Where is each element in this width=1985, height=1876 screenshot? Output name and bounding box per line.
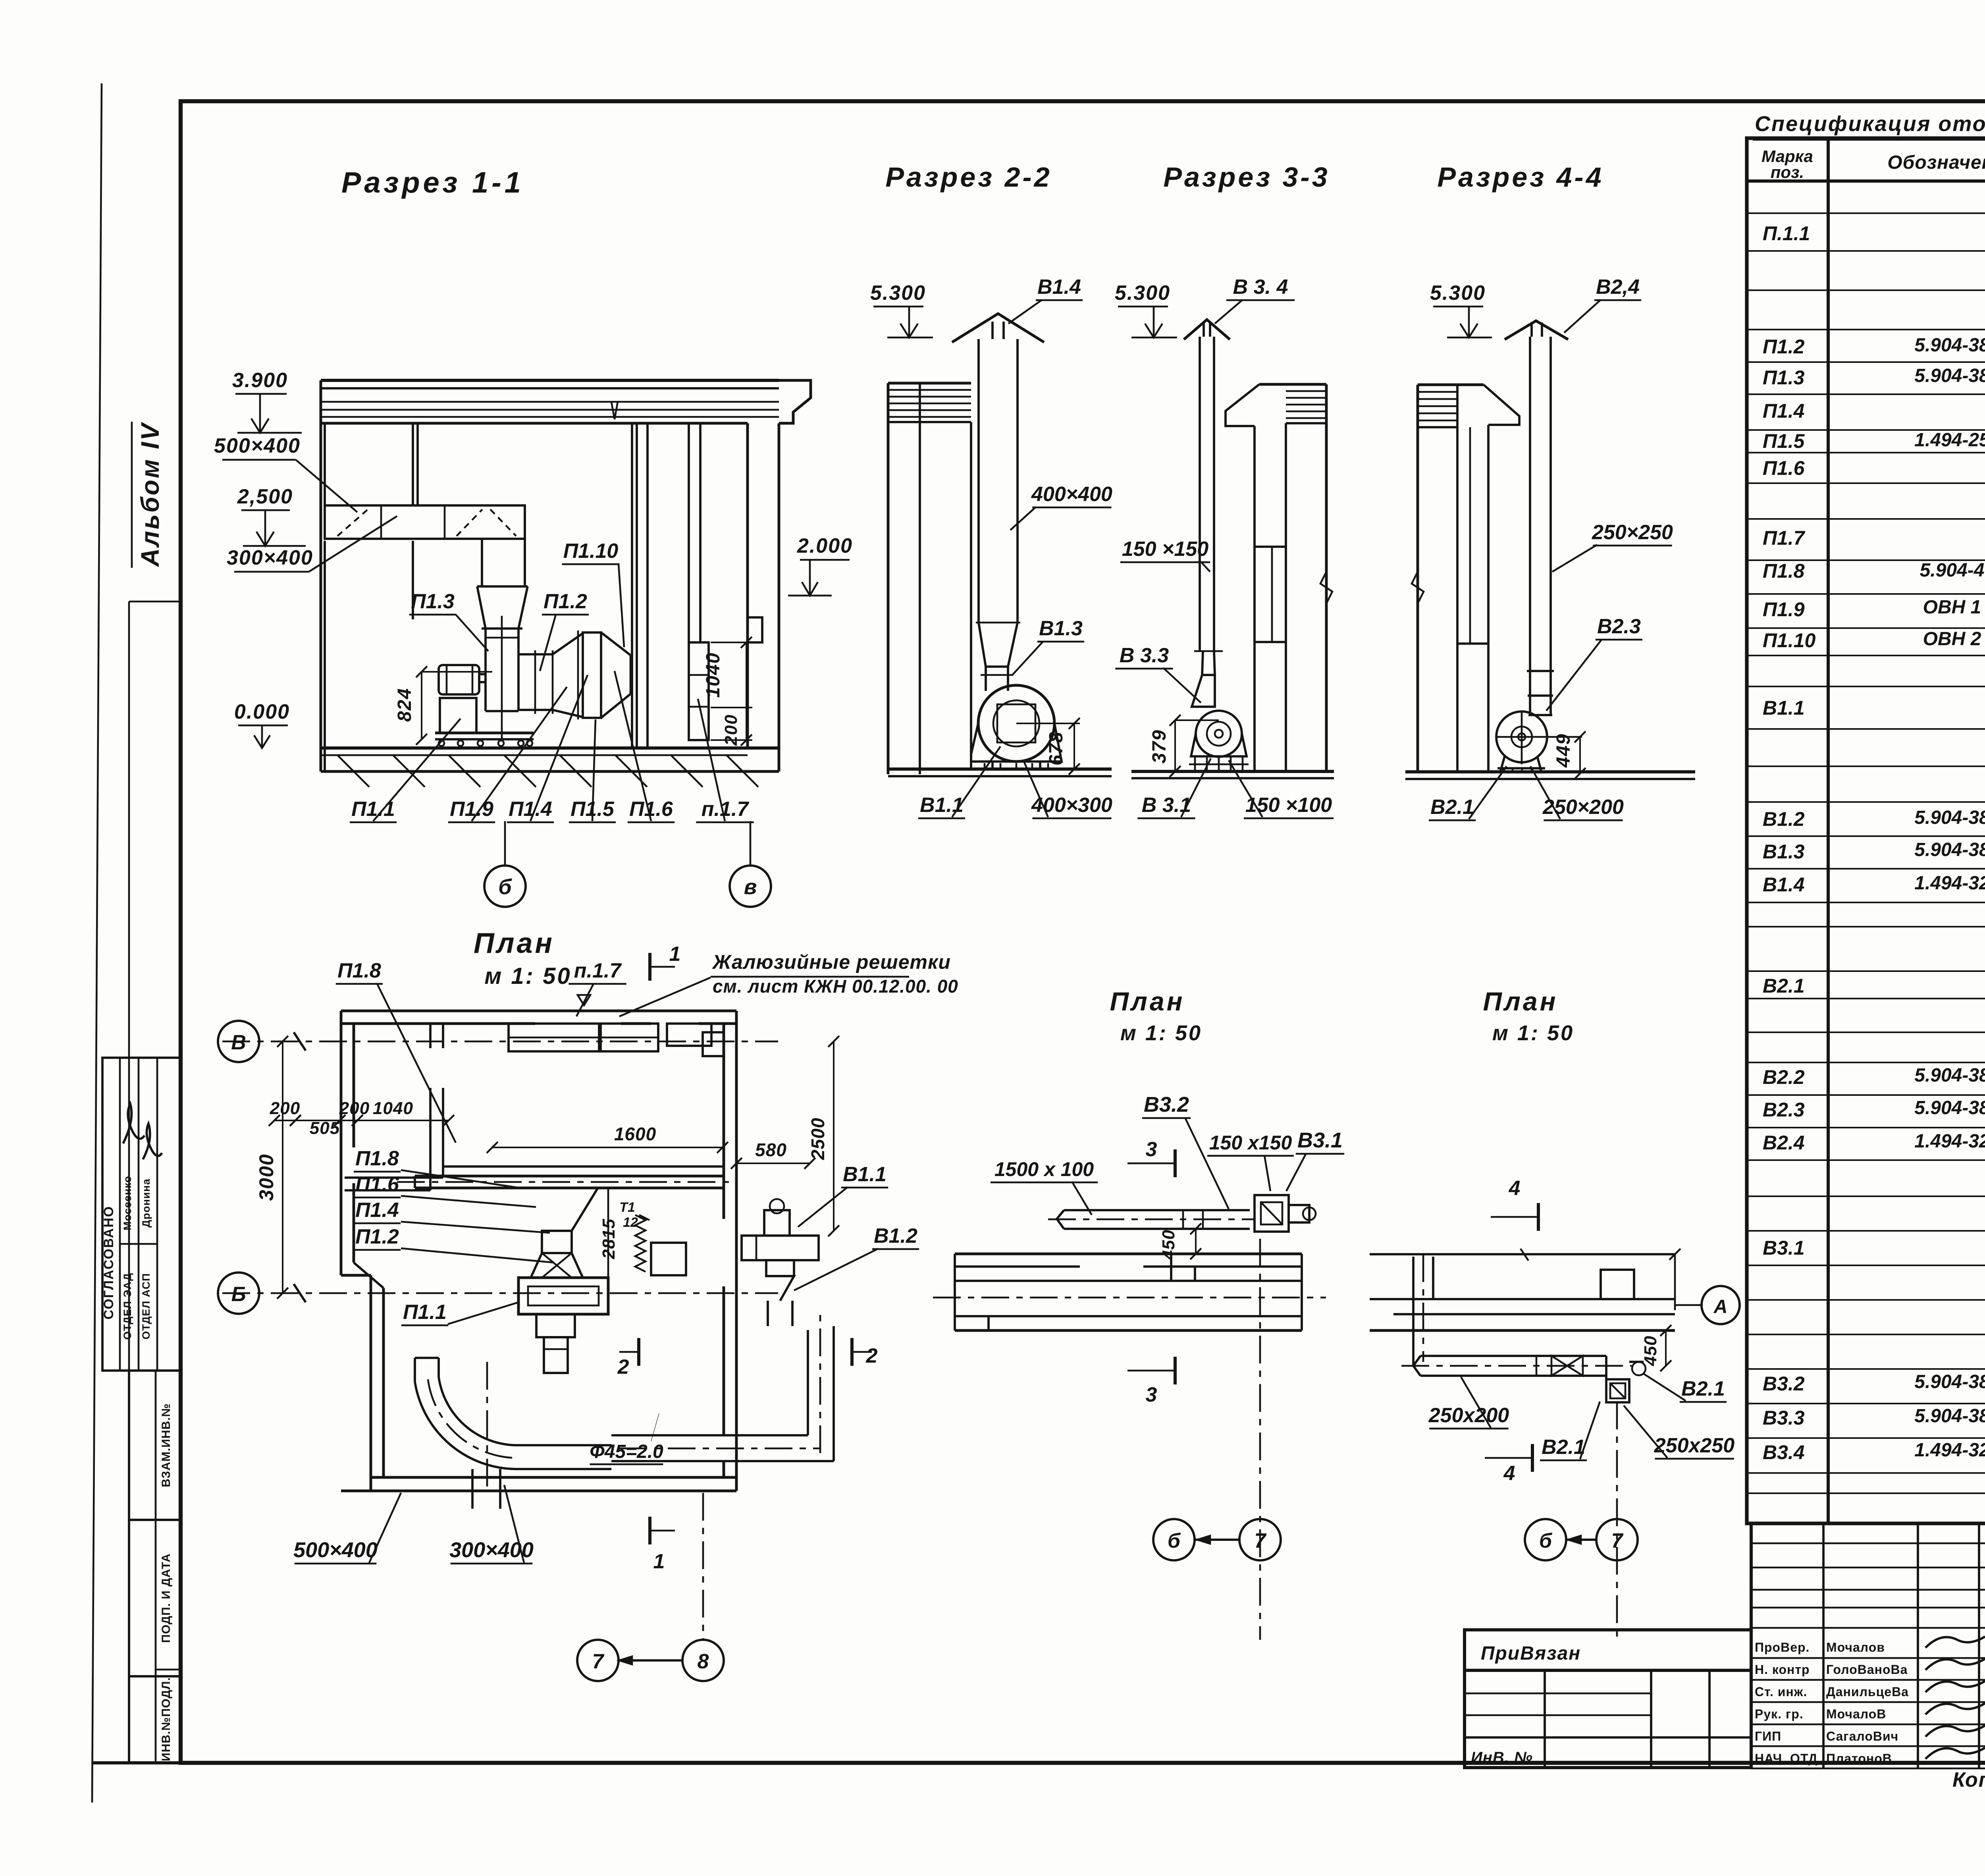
svg-text:5.904-38: 5.904-38 <box>1914 1371 1985 1392</box>
svg-text:ПриВязан: ПриВязан <box>1481 1643 1581 1664</box>
svg-text:ГолоВаноВа: ГолоВаноВа <box>1826 1662 1908 1677</box>
dim ticks on top line <box>1674 1254 1676 1310</box>
circle б <box>1525 1519 1566 1560</box>
svg-text:3.900: 3.900 <box>232 369 288 392</box>
привязан grid <box>1465 1670 1751 1768</box>
svg-text:200: 200 <box>270 1099 300 1118</box>
svg-text:План: План <box>474 927 555 959</box>
svg-text:449: 449 <box>1553 733 1574 768</box>
stamp box Взам. инв. № <box>129 1371 181 1520</box>
stamp signatures (scribbles) <box>123 1104 145 1143</box>
interior pilaster <box>631 423 633 748</box>
louver grille slots in top wall <box>509 1024 599 1051</box>
axis circle Б <box>218 1273 259 1314</box>
svg-text:П1.1: П1.1 <box>351 798 395 821</box>
svg-text:П1.4: П1.4 <box>1763 400 1804 422</box>
svg-text:3000: 3000 <box>255 1153 278 1201</box>
fan П1.1 pedestal <box>440 698 476 733</box>
svg-text:0.000: 0.000 <box>234 700 290 723</box>
svg-text:3: 3 <box>1146 1383 1157 1406</box>
зонт В1.4 umbrella <box>952 314 1044 342</box>
svg-text:П1.1: П1.1 <box>403 1301 447 1324</box>
duct 1500x100 <box>1064 1209 1250 1211</box>
svg-text:2,500: 2,500 <box>237 485 293 508</box>
svg-text:В2.4: В2.4 <box>1763 1132 1805 1154</box>
circle 7 <box>1239 1519 1281 1560</box>
svg-text:п.1.7: п.1.7 <box>701 798 750 821</box>
svg-text:1: 1 <box>653 1550 665 1573</box>
svg-text:П1.2: П1.2 <box>543 590 587 613</box>
гибкая вставка В1.3 <box>985 667 987 691</box>
svg-text:ОТДЕЛ АСП: ОТДЕЛ АСП <box>140 1273 152 1339</box>
svg-text:Спецификация отопительно- Вен: Спецификация отопительно- Вентиляционных… <box>1755 112 1985 136</box>
зонт В3.4 umbrella <box>1184 320 1230 339</box>
svg-text:1040: 1040 <box>703 652 724 698</box>
svg-text:505: 505 <box>310 1118 340 1138</box>
svg-text:Разрез 3-3: Разрез 3-3 <box>1163 162 1330 193</box>
svg-text:П1.8: П1.8 <box>1763 560 1805 582</box>
svg-text:Разрез 1-1: Разрез 1-1 <box>341 166 524 199</box>
svg-text:450: 450 <box>1159 1230 1178 1260</box>
wall band bottom <box>955 1315 1302 1317</box>
svg-text:В1.1: В1.1 <box>843 1163 887 1186</box>
svg-text:б: б <box>1168 1529 1181 1552</box>
curved duct with arc <box>415 1382 516 1469</box>
fan В3.1 <box>1196 711 1242 757</box>
svg-text:В3.3: В3.3 <box>1763 1407 1805 1429</box>
left wall with jog <box>340 1011 343 1275</box>
duct stub right of П1 unit <box>651 1243 686 1275</box>
svg-text:Мочалов: Мочалов <box>1826 1640 1885 1654</box>
circle 8 <box>682 1640 724 1681</box>
В1 unit outside right wall <box>764 1210 790 1236</box>
svg-text:Альбом IV: Альбом IV <box>136 422 164 568</box>
svg-text:5.904-38: 5.904-38 <box>1914 1065 1985 1086</box>
svg-text:4: 4 <box>1503 1462 1515 1485</box>
svg-text:Ф45=2.0: Ф45=2.0 <box>590 1441 663 1462</box>
svg-text:Н. контр: Н. контр <box>1755 1662 1810 1677</box>
svg-text:ВЗАМ.ИНВ.№: ВЗАМ.ИНВ.№ <box>160 1403 173 1487</box>
left wall <box>320 380 322 771</box>
spec table row lines <box>1747 212 1985 214</box>
П1 unit: funnel <box>516 1188 598 1231</box>
svg-text:Б: Б <box>231 1283 246 1306</box>
svg-text:580: 580 <box>755 1139 787 1160</box>
svg-text:Разрез 2-2: Разрез 2-2 <box>885 162 1052 193</box>
svg-text:7: 7 <box>1255 1529 1267 1552</box>
signature rows <box>1751 1657 1985 1659</box>
svg-text:В1.1: В1.1 <box>920 794 964 817</box>
fan base <box>991 762 994 769</box>
svg-text:МочалоВ: МочалоВ <box>1826 1707 1886 1721</box>
exhaust duct 400x400 <box>977 339 980 623</box>
right parapet / roof edge <box>779 380 811 423</box>
wall inner column with opening <box>1253 426 1256 771</box>
svg-text:Обозначение: Обозначение <box>1887 152 1985 173</box>
svg-text:В2.1: В2.1 <box>1763 975 1805 997</box>
signature table left of title block <box>1751 1522 1985 1525</box>
svg-text:В3.2: В3.2 <box>1144 1093 1189 1116</box>
svg-text:План: План <box>1110 987 1185 1016</box>
ceiling slab <box>321 379 779 382</box>
top thin wall line with break <box>1370 1253 1675 1255</box>
svg-text:678: 678 <box>1046 731 1067 765</box>
svg-text:Мосеенко: Мосеенко <box>121 1176 133 1230</box>
section mark 4 top <box>1491 1216 1538 1218</box>
svg-text:ДанильцеВа: ДанильцеВа <box>1826 1685 1909 1699</box>
svg-text:379: 379 <box>1149 729 1170 764</box>
duct 250x200 <box>1420 1355 1606 1357</box>
svg-text:Дронина: Дронина <box>140 1178 152 1227</box>
svg-text:В1.2: В1.2 <box>874 1224 917 1247</box>
svg-text:250x200: 250x200 <box>1428 1404 1509 1427</box>
svg-text:П1.5: П1.5 <box>1763 430 1805 452</box>
svg-text:поз.: поз. <box>1771 163 1804 181</box>
spec table column lines <box>1827 138 1830 1523</box>
horizontal supply duct 500x400 <box>325 505 525 539</box>
канал в стене <box>688 423 690 642</box>
vertical axis line to circle 8 <box>702 1493 704 1640</box>
floor <box>1405 770 1695 773</box>
stamp box Подп. и дата <box>129 1520 181 1676</box>
fan П1.1 motor <box>439 665 479 694</box>
svg-text:В2.1: В2.1 <box>1542 1436 1585 1459</box>
svg-text:План: План <box>1483 987 1558 1016</box>
svg-text:П1.9: П1.9 <box>1763 598 1805 621</box>
svg-text:В 3.3: В 3.3 <box>1120 644 1169 667</box>
svg-text:В2.2: В2.2 <box>1763 1066 1805 1088</box>
svg-text:В2.3: В2.3 <box>1763 1099 1805 1121</box>
wall inner column with opening <box>1487 425 1490 772</box>
svg-text:5.300: 5.300 <box>1115 281 1170 305</box>
svg-text:500×400: 500×400 <box>293 1538 378 1562</box>
привязан box <box>1465 1630 1751 1670</box>
гибкая вставка В2.3 <box>1527 670 1554 672</box>
axis Б dash-dot line <box>222 1292 778 1294</box>
svg-text:В3.4: В3.4 <box>1763 1441 1805 1463</box>
wall outline: top wall <box>341 1010 736 1012</box>
axis circle в <box>730 866 771 907</box>
left margin stamp strip lines <box>129 601 181 603</box>
svg-text:5.904-38: 5.904-38 <box>1914 807 1985 828</box>
svg-text:450: 450 <box>1641 1336 1660 1366</box>
left vertical dash-dot <box>1422 1254 1424 1362</box>
fan В2.1 plan <box>1606 1379 1629 1402</box>
transition cone <box>979 623 1018 667</box>
arrow б-7 <box>1195 1539 1239 1541</box>
svg-text:150 x150: 150 x150 <box>1209 1132 1292 1154</box>
svg-text:П1.4: П1.4 <box>509 798 552 821</box>
svg-text:1040: 1040 <box>373 1099 413 1118</box>
svg-text:2: 2 <box>866 1344 878 1367</box>
spec table outer box <box>1747 138 1985 1523</box>
duct centerline <box>397 1181 734 1183</box>
svg-text:м 1: 50: м 1: 50 <box>484 963 571 989</box>
vertical duct upper run <box>481 539 483 586</box>
svg-text:200: 200 <box>721 714 741 746</box>
exhaust duct 250x250 <box>1529 337 1531 671</box>
axis dash-dot below П1.1 unit <box>486 1362 488 1489</box>
L duct bottom right <box>611 1434 808 1436</box>
svg-text:П1.6: П1.6 <box>1763 457 1805 479</box>
калорифер П1.4 box <box>583 632 601 718</box>
svg-text:П1.7: П1.7 <box>1763 527 1806 549</box>
svg-text:2.000: 2.000 <box>797 534 853 557</box>
break mark <box>1412 572 1424 603</box>
svg-text:Рук. гр.: Рук. гр. <box>1755 1707 1804 1721</box>
svg-text:400×400: 400×400 <box>1031 483 1112 506</box>
svg-text:В1.3: В1.3 <box>1039 617 1083 640</box>
bottom wall <box>341 1490 736 1492</box>
svg-text:1600: 1600 <box>614 1124 656 1144</box>
svg-text:СагалоВич: СагалоВич <box>1826 1729 1898 1743</box>
svg-text:200: 200 <box>339 1099 370 1118</box>
svg-text:В1.4: В1.4 <box>1763 873 1805 896</box>
svg-text:150 ×100: 150 ×100 <box>1245 794 1332 817</box>
svg-text:П1.8: П1.8 <box>355 1147 399 1170</box>
svg-text:б: б <box>1539 1529 1553 1552</box>
svg-text:см. лист КЖН 00.12.00. 00: см. лист КЖН 00.12.00. 00 <box>713 976 958 997</box>
svg-text:1.494-32: 1.494-32 <box>1914 873 1985 894</box>
svg-text:5.904-38: 5.904-38 <box>1914 839 1985 860</box>
inner wall line along corridor <box>443 1165 724 1168</box>
svg-text:1.494-25: 1.494-25 <box>1914 430 1985 451</box>
svg-text:1: 1 <box>669 943 681 966</box>
stamp box Согласовано <box>102 1058 181 1371</box>
svg-text:В1.1: В1.1 <box>1763 697 1805 719</box>
svg-text:5.300: 5.300 <box>1430 281 1486 305</box>
svg-text:В1.2: В1.2 <box>1763 808 1805 830</box>
axis dash line <box>933 1297 1326 1299</box>
section mark 2 (right) <box>850 1338 854 1366</box>
vertical duct pair to wall <box>415 1357 439 1359</box>
flexible connection zigzag <box>635 1215 646 1272</box>
svg-text:ПОДП. И ДАТА: ПОДП. И ДАТА <box>160 1553 173 1643</box>
right wall ledge 2.000 <box>748 617 762 642</box>
break mark <box>1320 572 1332 603</box>
svg-text:Ст. инж.: Ст. инж. <box>1755 1685 1807 1699</box>
flexible insert marks on duct (dashed) <box>337 508 369 536</box>
svg-text:м 1: 50: м 1: 50 <box>1492 1021 1574 1045</box>
bottom border extension to paper edge <box>92 1761 181 1764</box>
svg-text:В1.3: В1.3 <box>1763 841 1805 863</box>
supply duct 500x400 horizontal run <box>415 1175 723 1178</box>
svg-text:3: 3 <box>1146 1138 1157 1161</box>
svg-text:5.300: 5.300 <box>870 281 926 305</box>
axis circle б <box>484 866 526 907</box>
svg-text:7: 7 <box>592 1650 605 1673</box>
svg-text:В2.3: В2.3 <box>1597 615 1641 638</box>
svg-text:500×400: 500×400 <box>214 434 301 457</box>
svg-text:В3.2: В3.2 <box>1763 1373 1805 1395</box>
svg-text:ПлатоноВ: ПлатоноВ <box>1826 1751 1892 1766</box>
svg-text:П1.2: П1.2 <box>355 1225 399 1248</box>
svg-text:ГИП: ГИП <box>1755 1729 1781 1743</box>
svg-text:П1.4: П1.4 <box>355 1199 399 1222</box>
svg-text:П1.3: П1.3 <box>411 590 455 613</box>
svg-text:250×250: 250×250 <box>1592 521 1673 544</box>
marker triangle above wall <box>578 995 590 1005</box>
duct taper cone <box>477 586 486 629</box>
svg-text:2: 2 <box>617 1355 629 1379</box>
фильтр П1.7 device <box>689 642 709 740</box>
svg-text:п.1.7: п.1.7 <box>574 959 622 982</box>
svg-text:4: 4 <box>1509 1177 1521 1200</box>
right wall structure <box>1285 423 1287 771</box>
переход П1.9 expanding cone <box>553 633 583 654</box>
axis line down to circle 7 <box>1259 1239 1261 1640</box>
wall band top <box>955 1253 1302 1255</box>
slab joint mark <box>611 402 618 419</box>
axis circle В <box>218 1021 259 1062</box>
svg-text:ОВН 1: ОВН 1 <box>1923 597 1981 618</box>
left wall with hatched slab <box>887 383 890 774</box>
гибкая вставка П1.2 outlet <box>518 653 553 656</box>
wall stub above <box>1601 1270 1634 1299</box>
section mark 1 top <box>648 953 651 981</box>
svg-text:824: 824 <box>394 688 415 722</box>
svg-text:ПроВер.: ПроВер. <box>1755 1640 1810 1654</box>
svg-text:А: А <box>1713 1296 1728 1317</box>
svg-text:м 1: 50: м 1: 50 <box>1120 1021 1202 1045</box>
переход П1.10 narrowing cone <box>601 632 630 655</box>
axis В dash-dot line <box>222 1041 778 1043</box>
svg-text:5.904-38: 5.904-38 <box>1914 335 1985 356</box>
section mark 1 bottom <box>648 1517 651 1544</box>
fan В3.1 plan <box>1255 1195 1289 1232</box>
svg-text:ОТДЕЛ ЭАД: ОТДЕЛ ЭАД <box>121 1273 133 1340</box>
svg-text:1500 x 100: 1500 x 100 <box>994 1158 1094 1180</box>
fan В1.1 scroll <box>978 685 1054 762</box>
svg-text:1.494-32: 1.494-32 <box>1914 1131 1985 1152</box>
svg-text:ИнВ. №: ИнВ. № <box>1471 1749 1533 1766</box>
svg-text:В3.1: В3.1 <box>1297 1128 1343 1152</box>
svg-text:П.1.1: П.1.1 <box>1763 222 1810 245</box>
svg-text:В2.1: В2.1 <box>1430 796 1474 819</box>
svg-text:1.494-32: 1.494-32 <box>1914 1440 1985 1461</box>
axis line down to circle 7 <box>1616 1402 1618 1640</box>
circle 7 <box>1596 1519 1638 1560</box>
svg-text:В 3. 4: В 3. 4 <box>1233 276 1288 299</box>
section mark 4 bottom <box>1485 1457 1532 1459</box>
axis А circle <box>1675 1304 1703 1306</box>
svg-text:П1.3: П1.3 <box>1763 366 1805 389</box>
svg-text:НАЧ. ОТД: НАЧ. ОТД <box>1755 1751 1817 1766</box>
гибкая вставка В3.3 <box>1194 650 1223 652</box>
svg-text:12: 12 <box>623 1215 638 1230</box>
right wall column <box>746 423 749 748</box>
В1 duct down <box>767 1301 769 1326</box>
svg-text:П1.10: П1.10 <box>563 540 619 563</box>
interior partition top-left room <box>345 1176 443 1179</box>
svg-text:П1.6: П1.6 <box>629 798 673 821</box>
svg-text:П1.10: П1.10 <box>1763 629 1815 652</box>
svg-text:8: 8 <box>698 1650 709 1673</box>
pedestal boxes <box>536 1314 575 1337</box>
svg-text:В2.1: В2.1 <box>1681 1377 1725 1400</box>
upper small rows <box>1751 1542 1985 1544</box>
spec table header row <box>1747 179 1985 183</box>
svg-text:в: в <box>744 875 757 899</box>
stamp box Инв. № подл. <box>129 1676 181 1763</box>
svg-text:250x250: 250x250 <box>1654 1434 1735 1457</box>
svg-text:7: 7 <box>1611 1529 1624 1552</box>
svg-text:5.904-4: 5.904-4 <box>1920 560 1985 581</box>
svg-text:5.904-38: 5.904-38 <box>1914 1097 1985 1118</box>
right wall <box>735 1011 738 1491</box>
П1.1 fan unit box <box>518 1278 608 1314</box>
svg-text:П1.6: П1.6 <box>355 1173 399 1196</box>
svg-text:Т1: Т1 <box>619 1200 635 1215</box>
svg-text:П1.8: П1.8 <box>337 959 381 982</box>
svg-text:Жалюзийные решетки: Жалюзийные решетки <box>711 951 951 973</box>
svg-text:В2,4: В2,4 <box>1596 276 1640 299</box>
exhaust duct 150x150 <box>1199 337 1201 651</box>
duct lower run П1.3 <box>484 629 487 711</box>
section mark 2 (left) <box>637 1338 640 1366</box>
svg-text:2500: 2500 <box>807 1118 828 1160</box>
svg-text:ИНВ.№ПОДЛ.: ИНВ.№ПОДЛ. <box>160 1677 173 1761</box>
ground hatch below floor <box>337 755 369 787</box>
duct stub through bottom wall <box>471 1469 474 1509</box>
svg-text:СОГЛАСОВАНО: СОГЛАСОВАНО <box>101 1206 116 1320</box>
arrow б-7 <box>1567 1539 1596 1541</box>
floor slab <box>321 746 779 750</box>
svg-text:В: В <box>231 1031 246 1054</box>
circle б <box>1153 1519 1195 1560</box>
flexible insert bowtie <box>1551 1356 1583 1376</box>
base frame with vibro mounts <box>435 732 534 735</box>
fan П1.1 casing bottom <box>486 710 518 712</box>
wall band <box>1370 1298 1675 1300</box>
section mark 3 bottom <box>1127 1370 1175 1372</box>
svg-text:5.904-38: 5.904-38 <box>1914 365 1985 386</box>
fan В2.1 scroll <box>1496 711 1547 762</box>
section mark 3 top <box>1127 1163 1175 1165</box>
floor <box>888 767 1112 771</box>
interior column <box>412 423 414 505</box>
svg-text:б: б <box>498 875 512 899</box>
svg-text:КопироВал: АнтипоВа: КопироВал: АнтипоВа <box>1952 1768 1985 1791</box>
svg-text:250×200: 250×200 <box>1542 796 1624 819</box>
svg-text:Разрез 4-4: Разрез 4-4 <box>1437 162 1603 193</box>
paper edge line left <box>92 83 102 1803</box>
circle 7 <box>577 1640 619 1681</box>
svg-text:В3.1: В3.1 <box>1763 1237 1805 1259</box>
svg-text:В1.4: В1.4 <box>1037 276 1081 299</box>
svg-text:ОВН 2: ОВН 2 <box>1923 629 1981 650</box>
floor <box>1131 770 1334 773</box>
svg-text:300×400: 300×400 <box>227 546 313 569</box>
right wall inner recess <box>703 1032 724 1056</box>
svg-text:150 ×150: 150 ×150 <box>1122 538 1208 561</box>
зонт В2.4 umbrella <box>1505 321 1568 339</box>
svg-text:5.904-38: 5.904-38 <box>1914 1406 1985 1427</box>
left wall structure <box>1416 385 1419 772</box>
svg-text:П1.2: П1.2 <box>1763 335 1805 358</box>
